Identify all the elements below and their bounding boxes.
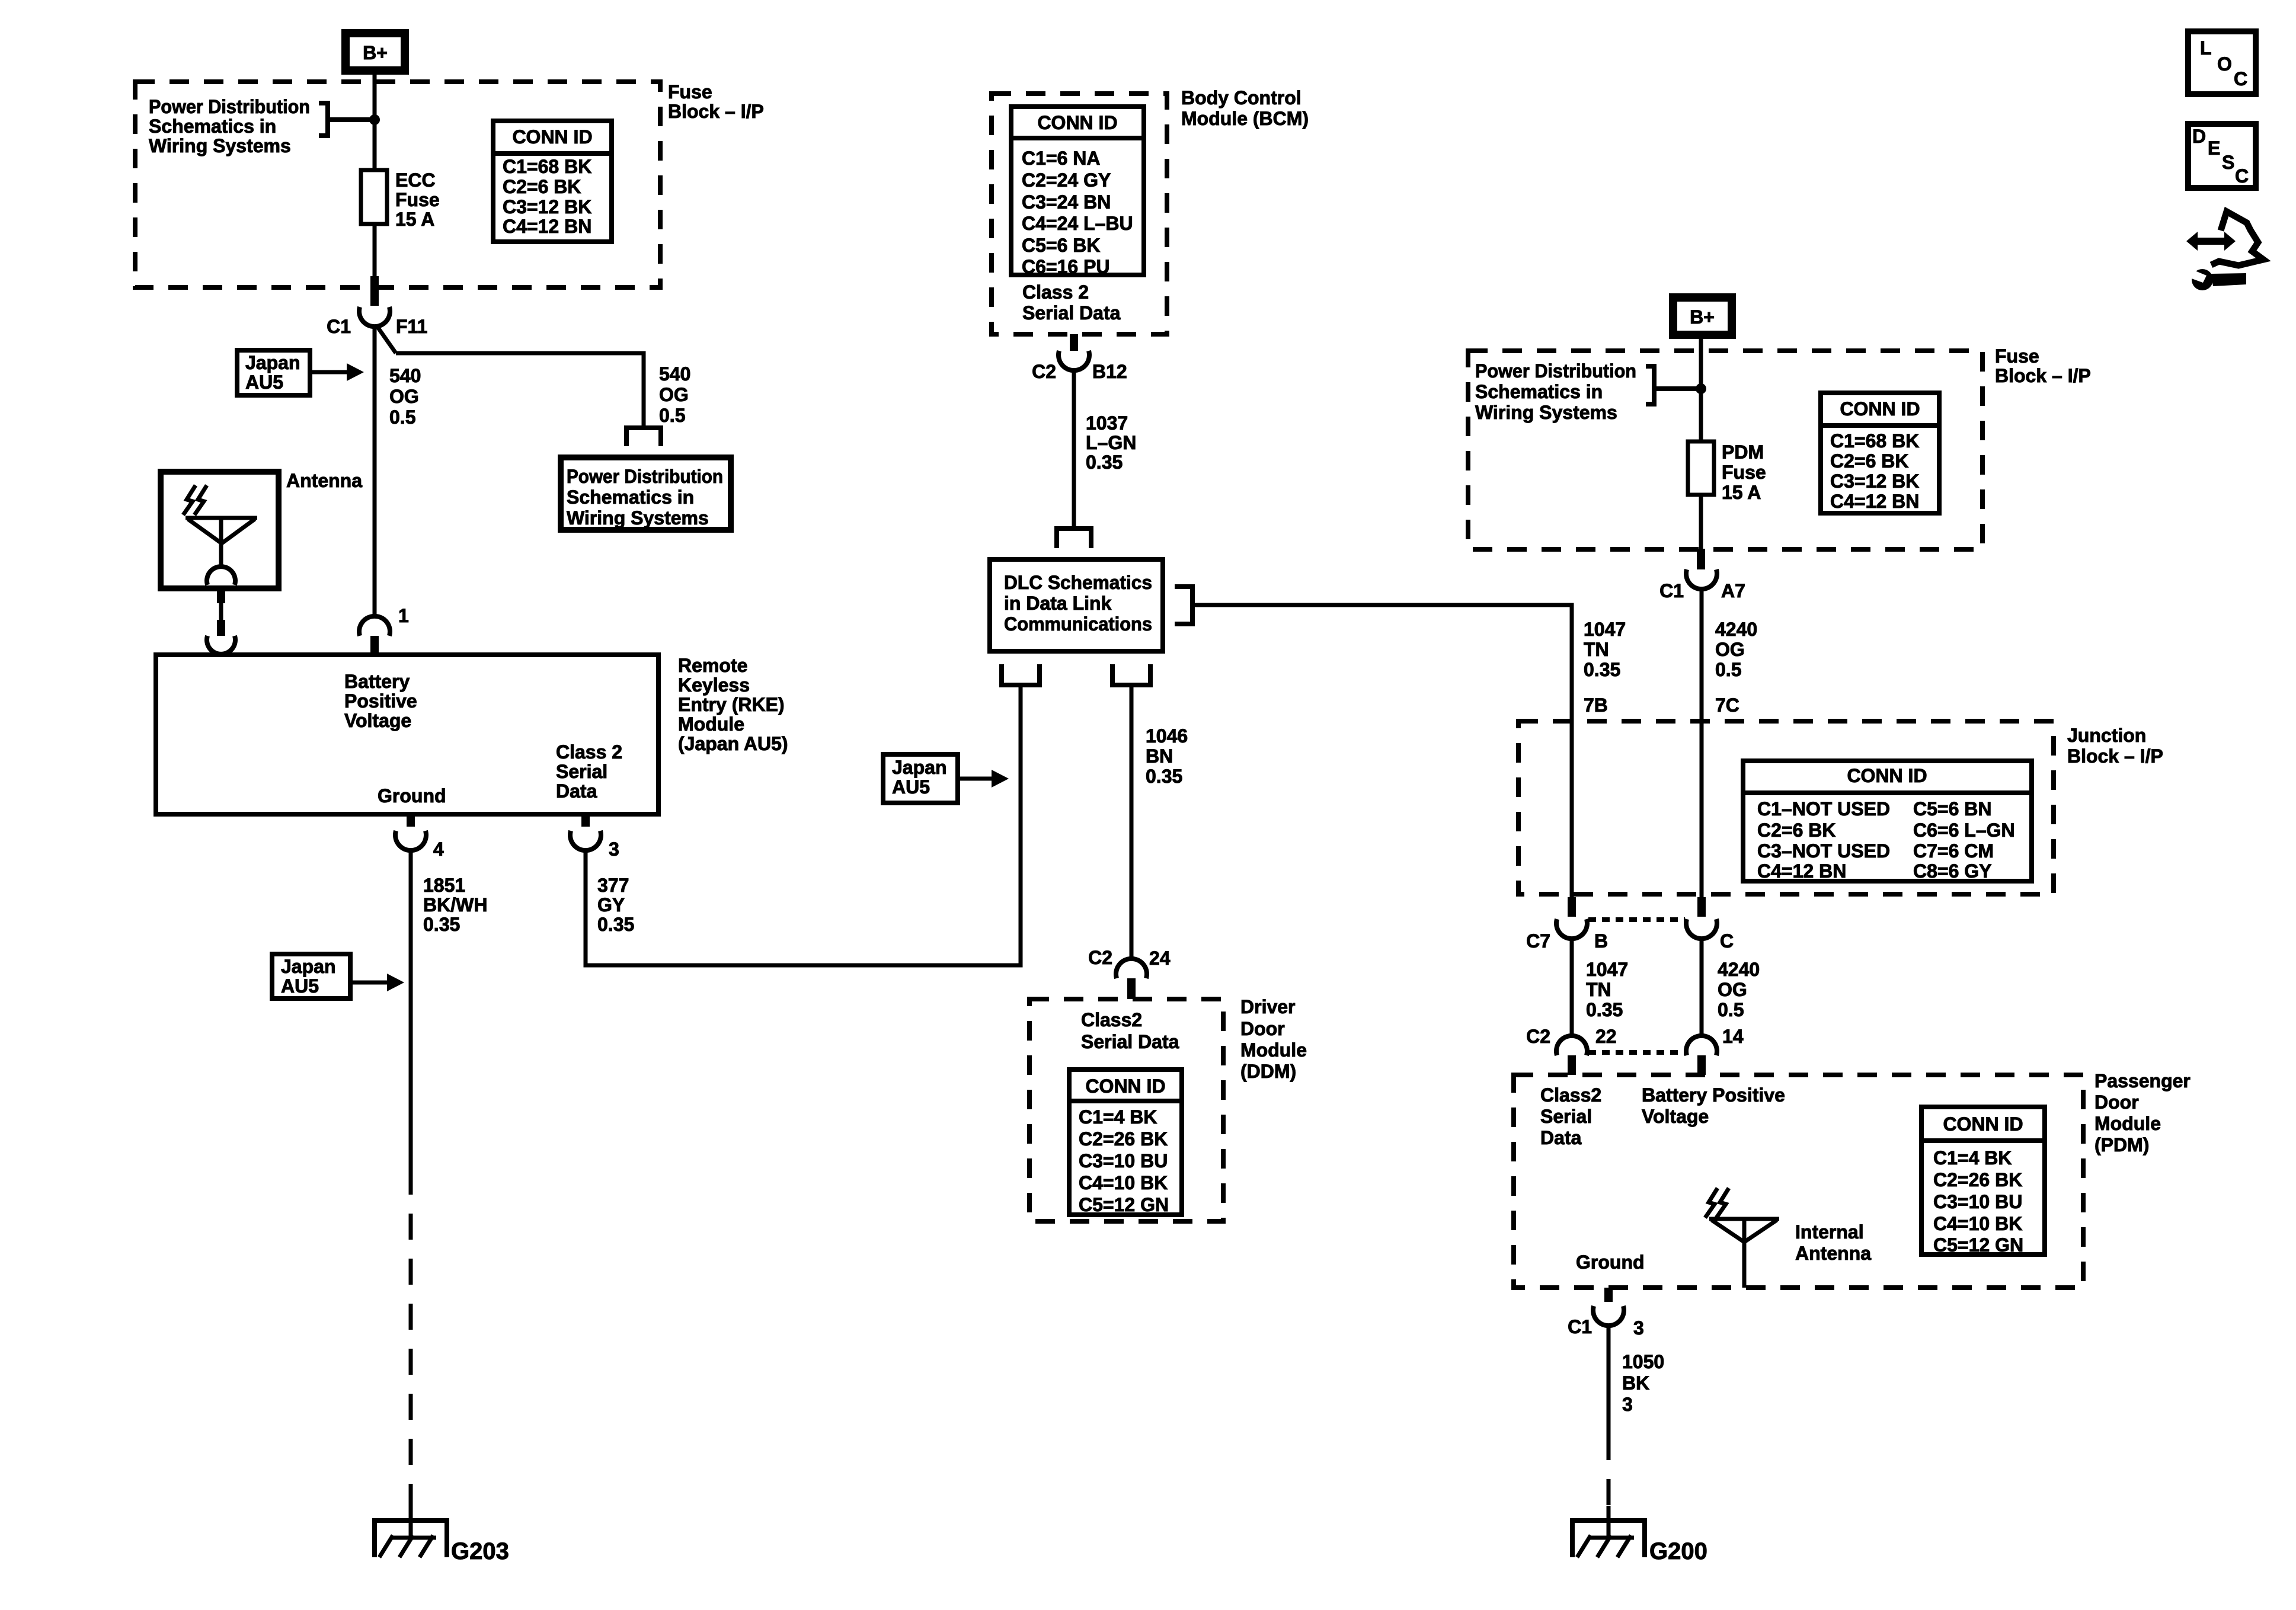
svg-text:C4=12 BN: C4=12 BN	[1830, 491, 1919, 512]
svg-text:1: 1	[398, 605, 409, 626]
svg-text:Power Distribution: Power Distribution	[1475, 360, 1636, 382]
svg-text:Module: Module	[1240, 1039, 1307, 1061]
svg-text:Class2: Class2	[1081, 1009, 1142, 1030]
svg-text:C2=6 BK: C2=6 BK	[503, 176, 581, 197]
svg-text:Body Control: Body Control	[1181, 87, 1302, 108]
svg-text:Serial Data: Serial Data	[1081, 1031, 1179, 1052]
Japan AU5 flag (top)	[237, 350, 364, 395]
svg-text:0.5: 0.5	[389, 406, 415, 428]
fuse PDM	[1688, 441, 1714, 495]
RKE internal labels	[344, 671, 622, 806]
svg-text:Junction: Junction	[2067, 725, 2146, 746]
svg-text:C2=26 BK: C2=26 BK	[1933, 1169, 2022, 1190]
svg-text:Driver: Driver	[1240, 996, 1296, 1017]
svg-text:C8=6 GY: C8=6 GY	[1913, 860, 1992, 882]
svg-text:C5=12 GN: C5=12 GN	[1079, 1194, 1169, 1215]
connector pin 4 (RKE ground)	[395, 814, 444, 860]
svg-text:C: C	[2234, 68, 2247, 89]
label: circuit 1046 BN 0.35	[1146, 725, 1188, 787]
svg-text:C2=6 BK: C2=6 BK	[1830, 450, 1909, 472]
connector C2 B12 (BCM output)	[1032, 334, 1127, 382]
svg-text:1037: 1037	[1086, 412, 1128, 434]
svg-text:ECC: ECC	[395, 169, 436, 191]
svg-text:L–GN: L–GN	[1086, 432, 1136, 453]
DLC bottom-right bracket	[1112, 664, 1150, 685]
svg-text:Data: Data	[556, 780, 597, 802]
svg-text:C2=24 GY: C2=24 GY	[1022, 169, 1111, 191]
junction block I/P dashed box	[1518, 721, 2054, 894]
svg-text:CONN ID: CONN ID	[1943, 1113, 2023, 1135]
Power Distribution Schematics box (solid)	[561, 457, 731, 530]
svg-text:Voltage: Voltage	[1642, 1106, 1709, 1127]
label: Fuse Block - I/P (right)	[1995, 345, 2091, 386]
svg-text:0.35: 0.35	[1146, 766, 1182, 787]
LOC legend box	[2188, 31, 2256, 94]
B+ power symbol (right)	[1673, 297, 1732, 335]
CONN ID table (PDM)	[1921, 1107, 2045, 1256]
wire: DLC to junction block	[1192, 605, 1572, 897]
svg-text:Class 2: Class 2	[556, 741, 622, 763]
svg-text:0.5: 0.5	[1718, 999, 1744, 1020]
svg-text:Power Distribution: Power Distribution	[149, 96, 310, 117]
svg-text:Fuse: Fuse	[1995, 345, 2039, 367]
svg-text:540: 540	[659, 363, 690, 385]
svg-text:Communications: Communications	[1004, 613, 1152, 635]
svg-text:Japan: Japan	[245, 352, 300, 373]
bracket from note to wire (left)	[319, 103, 372, 136]
svg-text:PDM: PDM	[1722, 441, 1764, 463]
label: Remote Keyless Entry (RKE) Module (Japan AU5)	[678, 655, 788, 754]
label: Body Control Module (BCM)	[1181, 87, 1309, 129]
BCM pin function: Class 2 Serial Data	[1022, 281, 1121, 324]
svg-text:TN: TN	[1584, 639, 1609, 660]
svg-text:GY: GY	[597, 894, 625, 916]
svg-text:Serial: Serial	[1540, 1106, 1592, 1127]
svg-text:1050: 1050	[1622, 1351, 1664, 1372]
svg-text:C1: C1	[1659, 580, 1684, 601]
RKE module box	[156, 655, 658, 814]
connector C2 22 (into PDM)	[1526, 1026, 1617, 1075]
connector 14 (into PDM)	[1686, 1026, 1744, 1075]
svg-text:C1: C1	[1568, 1316, 1592, 1337]
svg-text:C1=68 BK: C1=68 BK	[1830, 430, 1919, 452]
svg-text:7C: 7C	[1715, 694, 1739, 716]
svg-text:CONN ID: CONN ID	[1840, 398, 1920, 420]
svg-text:C2: C2	[1526, 1026, 1550, 1047]
svg-text:Japan: Japan	[281, 956, 335, 977]
wire: RKE pin 4 to G203	[409, 849, 413, 1538]
label: circuit 377 GY 0.35	[597, 875, 634, 935]
svg-text:C3=12 BK: C3=12 BK	[1830, 470, 1919, 492]
svg-text:Entry (RKE): Entry (RKE)	[678, 694, 785, 715]
svg-text:Fuse: Fuse	[395, 189, 440, 210]
svg-text:C: C	[1720, 930, 1734, 952]
wire: fuse down to connector C1/F11	[373, 224, 377, 276]
antenna symbol	[183, 485, 257, 568]
svg-text:1046: 1046	[1146, 725, 1188, 747]
svg-text:Remote: Remote	[678, 655, 747, 676]
svg-text:Module: Module	[678, 713, 744, 735]
svg-text:1851: 1851	[423, 875, 465, 896]
svg-text:Door: Door	[2094, 1092, 2139, 1113]
svg-text:G200: G200	[1649, 1538, 1707, 1564]
svg-text:C7=6 CM: C7=6 CM	[1913, 840, 1994, 862]
svg-text:Ground: Ground	[378, 785, 446, 806]
wire: C to 14	[1700, 937, 1704, 1037]
svg-text:Block – I/P: Block – I/P	[668, 101, 764, 122]
svg-text:0.35: 0.35	[1586, 999, 1623, 1020]
svg-text:Serial: Serial	[556, 761, 607, 782]
DLC bottom-left bracket	[1002, 664, 1040, 685]
svg-text:B+: B+	[1690, 306, 1715, 328]
svg-text:BK/WH: BK/WH	[423, 894, 487, 916]
svg-text:Data: Data	[1540, 1127, 1582, 1148]
svg-text:O: O	[2217, 53, 2232, 75]
ground G203	[372, 1518, 449, 1557]
wire: B to 22	[1570, 937, 1574, 1037]
ground G200	[1570, 1518, 1647, 1557]
svg-text:TN: TN	[1586, 979, 1611, 1000]
svg-text:Wiring Systems: Wiring Systems	[149, 135, 291, 156]
svg-text:Class2: Class2	[1540, 1084, 1601, 1106]
svg-text:Schematics in: Schematics in	[567, 486, 694, 508]
svg-text:3: 3	[1633, 1317, 1644, 1339]
svg-text:(Japan AU5): (Japan AU5)	[678, 733, 788, 754]
DESC legend box	[2188, 124, 2256, 188]
junction dot on B+ wire (right)	[1696, 383, 1706, 394]
svg-text:Block – I/P: Block – I/P	[1995, 365, 2091, 386]
svg-text:C4=12 BN: C4=12 BN	[503, 216, 591, 237]
DLC schematics box	[990, 559, 1163, 651]
internal antenna symbol (PDM)	[1705, 1188, 1779, 1288]
svg-text:C1=68 BK: C1=68 BK	[503, 156, 591, 177]
svg-text:C: C	[2235, 165, 2249, 187]
svg-text:Power Distribution: Power Distribution	[567, 466, 723, 487]
svg-text:C2=26 BK: C2=26 BK	[1079, 1128, 1168, 1150]
fuse ECC F11	[361, 170, 387, 224]
label: PDM Fuse 15 A	[1722, 441, 1766, 503]
svg-text:E: E	[2208, 137, 2220, 159]
antenna box	[161, 472, 279, 588]
CONN ID table (DDM)	[1069, 1070, 1182, 1215]
svg-text:C1=4 BK: C1=4 BK	[1933, 1147, 2012, 1169]
connector C7 B (junction block output)	[1526, 897, 1608, 952]
PDM pin functions	[1540, 1084, 1785, 1273]
CONN ID table (BCM)	[1011, 107, 1144, 277]
svg-text:OG: OG	[659, 384, 689, 405]
B+ power symbol (left)	[346, 33, 405, 71]
svg-text:4240: 4240	[1718, 959, 1760, 980]
svg-text:Fuse: Fuse	[1722, 462, 1766, 483]
svg-text:C1: C1	[327, 316, 351, 337]
fuse block I/P dashed box (left)	[135, 82, 660, 287]
svg-text:DLC Schematics: DLC Schematics	[1004, 572, 1152, 593]
svg-text:F11: F11	[396, 316, 427, 337]
svg-text:B: B	[1594, 930, 1608, 952]
svg-text:BN: BN	[1146, 745, 1173, 767]
DDM dashed box	[1029, 999, 1223, 1221]
svg-text:D: D	[2192, 126, 2206, 147]
svg-text:S: S	[2222, 152, 2234, 173]
bracket from note to wire (right)	[1646, 366, 1699, 404]
wire: fuse to C1/A7	[1699, 495, 1703, 549]
svg-text:C4=10 BK: C4=10 BK	[1079, 1172, 1168, 1193]
svg-text:Fuse: Fuse	[668, 81, 712, 103]
svg-text:Battery Positive: Battery Positive	[1642, 1084, 1785, 1106]
svg-text:OG: OG	[1718, 979, 1747, 1000]
svg-text:C4=12 BN: C4=12 BN	[1757, 860, 1846, 882]
svg-text:(DDM): (DDM)	[1240, 1061, 1296, 1082]
svg-text:Japan: Japan	[892, 757, 946, 778]
svg-text:C4=24 L–BU: C4=24 L–BU	[1022, 213, 1133, 234]
connector staple into PD box	[626, 428, 661, 446]
svg-text:CONN ID: CONN ID	[1085, 1076, 1165, 1097]
svg-text:AU5: AU5	[892, 776, 930, 798]
wire: branch from C1/F11 to the right	[376, 325, 644, 425]
svg-text:AU5: AU5	[245, 372, 283, 393]
service icon: double arrow, outline, wrench	[2186, 212, 2263, 290]
connector C (junction block output)	[1686, 897, 1734, 952]
note: Power Distribution Schematics in Wiring Systems (left)	[149, 96, 310, 156]
CONN ID table (junction block)	[1743, 761, 2032, 882]
label: Internal Antenna	[1795, 1221, 1871, 1264]
note: Power Distribution Schematics in Wiring Systems (right)	[1475, 360, 1636, 423]
label: circuit 540 OG 0.5 (right branch)	[659, 363, 690, 426]
connector pin 3 (RKE class 2 serial data)	[570, 814, 619, 860]
wire: BCM to DLC	[1072, 369, 1076, 526]
svg-text:0.5: 0.5	[1715, 659, 1741, 680]
BCM dashed box	[992, 94, 1167, 334]
svg-text:0.35: 0.35	[1086, 452, 1123, 473]
fuse block I/P dashed box (right)	[1468, 351, 1982, 549]
svg-text:Schematics in: Schematics in	[149, 116, 276, 137]
label: Driver Door Module (DDM)	[1240, 996, 1307, 1082]
svg-text:CONN ID: CONN ID	[1847, 765, 1927, 786]
label: circuit 4240 OG 0.5 (lower)	[1718, 959, 1760, 1020]
svg-text:C2=6 BK: C2=6 BK	[1757, 820, 1836, 841]
label: circuit 1047 TN 0.35 (lower)	[1586, 959, 1628, 1020]
svg-text:1047: 1047	[1584, 619, 1626, 640]
wire: DLC right leg down to DDM	[1130, 687, 1134, 960]
svg-text:B12: B12	[1092, 361, 1127, 382]
svg-text:Block – I/P: Block – I/P	[2067, 745, 2163, 767]
svg-text:3: 3	[1622, 1394, 1633, 1415]
svg-text:0.35: 0.35	[597, 914, 634, 935]
connector C1 3 (PDM ground output)	[1568, 1288, 1644, 1339]
wire: B+ down to fuse	[373, 71, 377, 170]
label: circuit 4240 OG 0.5 (upper)	[1715, 619, 1757, 680]
svg-text:(PDM): (PDM)	[2094, 1134, 2149, 1156]
svg-text:C3=10 BU: C3=10 BU	[1933, 1191, 2022, 1212]
svg-text:C3=10 BU: C3=10 BU	[1079, 1150, 1168, 1172]
label: Junction Block - I/P	[2067, 725, 2163, 767]
svg-text:Antenna: Antenna	[1795, 1243, 1871, 1264]
CONN ID table (right fuse block)	[1821, 393, 1939, 513]
svg-text:Schematics in: Schematics in	[1475, 381, 1603, 402]
svg-text:0.35: 0.35	[1584, 659, 1620, 680]
wire: C1/F11 down to RKE pin 1	[373, 325, 377, 617]
label: Passenger Door Module (PDM)	[2094, 1070, 2191, 1156]
svg-text:Battery: Battery	[344, 671, 410, 692]
wire: RKE pin 3 to DLC left leg	[586, 687, 1021, 965]
label: circuit 1851 BK/WH 0.35	[423, 875, 487, 935]
svg-text:AU5: AU5	[281, 975, 319, 997]
svg-text:4240: 4240	[1715, 619, 1757, 640]
Japan AU5 flag (DLC wire)	[883, 754, 1009, 803]
svg-text:0.35: 0.35	[423, 914, 460, 935]
svg-text:L: L	[2200, 37, 2212, 59]
DDM pin function: Class2 Serial Data	[1081, 1009, 1179, 1052]
svg-text:Serial Data: Serial Data	[1022, 302, 1121, 324]
svg-text:C6=6 L–GN: C6=6 L–GN	[1913, 820, 2015, 841]
svg-text:CONN ID: CONN ID	[1037, 112, 1117, 133]
svg-text:B+: B+	[363, 42, 388, 63]
connector C1 A7 (fuse block output)	[1659, 549, 1745, 601]
dotted pass-through connector top edge	[1588, 917, 1685, 922]
svg-text:G203: G203	[451, 1538, 509, 1564]
label: circuit 1047 TN 0.35 (upper)	[1584, 619, 1626, 680]
svg-text:OG: OG	[389, 386, 419, 407]
svg-text:Passenger: Passenger	[2094, 1070, 2191, 1092]
svg-text:14: 14	[1722, 1026, 1744, 1047]
svg-text:C5=6 BN: C5=6 BN	[1913, 798, 1992, 820]
wire: B+ down to PDM fuse	[1699, 335, 1703, 441]
svg-text:Module (BCM): Module (BCM)	[1181, 108, 1309, 129]
svg-text:3: 3	[609, 838, 619, 860]
svg-text:Class 2: Class 2	[1022, 281, 1089, 303]
CONN ID table (left fuse block)	[493, 121, 612, 242]
connector C1 F11 (fuse block output)	[327, 276, 427, 337]
connector pin 1 into RKE	[359, 605, 409, 655]
svg-text:Antenna: Antenna	[286, 470, 362, 491]
svg-text:C1=4 BK: C1=4 BK	[1079, 1106, 1157, 1128]
svg-text:Voltage: Voltage	[344, 710, 411, 731]
svg-text:Door: Door	[1240, 1018, 1285, 1039]
dotted pass-through connector bottom edge	[1588, 1050, 1685, 1055]
label: Fuse Block - I/P (left)	[668, 81, 764, 122]
PDM dashed box	[1514, 1075, 2083, 1288]
antenna lead connectors to RKE	[207, 588, 235, 654]
svg-text:377: 377	[597, 875, 629, 896]
svg-text:540: 540	[389, 365, 421, 386]
svg-text:C3=12 BK: C3=12 BK	[503, 196, 591, 217]
svg-text:0.5: 0.5	[659, 405, 685, 426]
wire: PDM to G200	[1607, 1324, 1611, 1538]
svg-text:15 A: 15 A	[395, 209, 434, 230]
svg-text:Positive: Positive	[344, 690, 417, 712]
svg-text:C7: C7	[1526, 930, 1550, 952]
connector C2 24 (into DDM)	[1088, 947, 1171, 999]
label: circuit 1037 L-GN 0.35	[1086, 412, 1136, 473]
svg-text:C6=16 PU: C6=16 PU	[1022, 256, 1110, 277]
svg-text:22: 22	[1595, 1026, 1617, 1047]
wire: C1/A7 down through junction block	[1700, 588, 1704, 897]
svg-text:A7: A7	[1721, 580, 1745, 601]
svg-text:CONN ID: CONN ID	[512, 126, 592, 148]
svg-text:1047: 1047	[1586, 959, 1628, 980]
svg-text:C3=24 BN: C3=24 BN	[1022, 191, 1111, 213]
svg-text:C1–NOT USED: C1–NOT USED	[1757, 798, 1890, 820]
svg-text:OG: OG	[1715, 639, 1745, 660]
svg-text:Keyless: Keyless	[678, 674, 750, 696]
svg-text:in Data Link: in Data Link	[1004, 593, 1112, 614]
Japan AU5 flag (ground wire)	[272, 954, 404, 998]
junction dot on B+ wire (left)	[369, 114, 380, 125]
label: ECC Fuse 15 A	[395, 169, 440, 230]
label: circuit 1050 BK 3	[1622, 1351, 1664, 1415]
svg-text:Wiring Systems: Wiring Systems	[1475, 402, 1617, 423]
svg-text:C3–NOT USED: C3–NOT USED	[1757, 840, 1890, 862]
svg-text:C1=6 NA: C1=6 NA	[1022, 148, 1101, 169]
svg-text:Wiring Systems: Wiring Systems	[567, 507, 709, 529]
DLC right output bracket	[1175, 587, 1192, 624]
svg-text:15 A: 15 A	[1722, 482, 1761, 503]
svg-text:4: 4	[433, 838, 444, 860]
svg-text:BK: BK	[1622, 1372, 1649, 1394]
svg-text:24: 24	[1149, 948, 1171, 969]
svg-text:C5=12 GN: C5=12 GN	[1933, 1234, 2023, 1256]
svg-text:7B: 7B	[1584, 694, 1608, 716]
svg-text:Ground: Ground	[1576, 1251, 1645, 1273]
svg-text:C2: C2	[1032, 361, 1056, 382]
label: circuit 540 OG 0.5 (left branch)	[389, 365, 421, 428]
svg-text:Internal: Internal	[1795, 1221, 1864, 1243]
connector staple into DLC box	[1057, 529, 1091, 548]
svg-text:C5=6 BK: C5=6 BK	[1022, 235, 1101, 256]
svg-text:C2: C2	[1088, 947, 1112, 968]
svg-text:Module: Module	[2094, 1113, 2161, 1134]
svg-text:C4=10 BK: C4=10 BK	[1933, 1213, 2022, 1234]
antenna output dome on box border	[207, 566, 235, 585]
